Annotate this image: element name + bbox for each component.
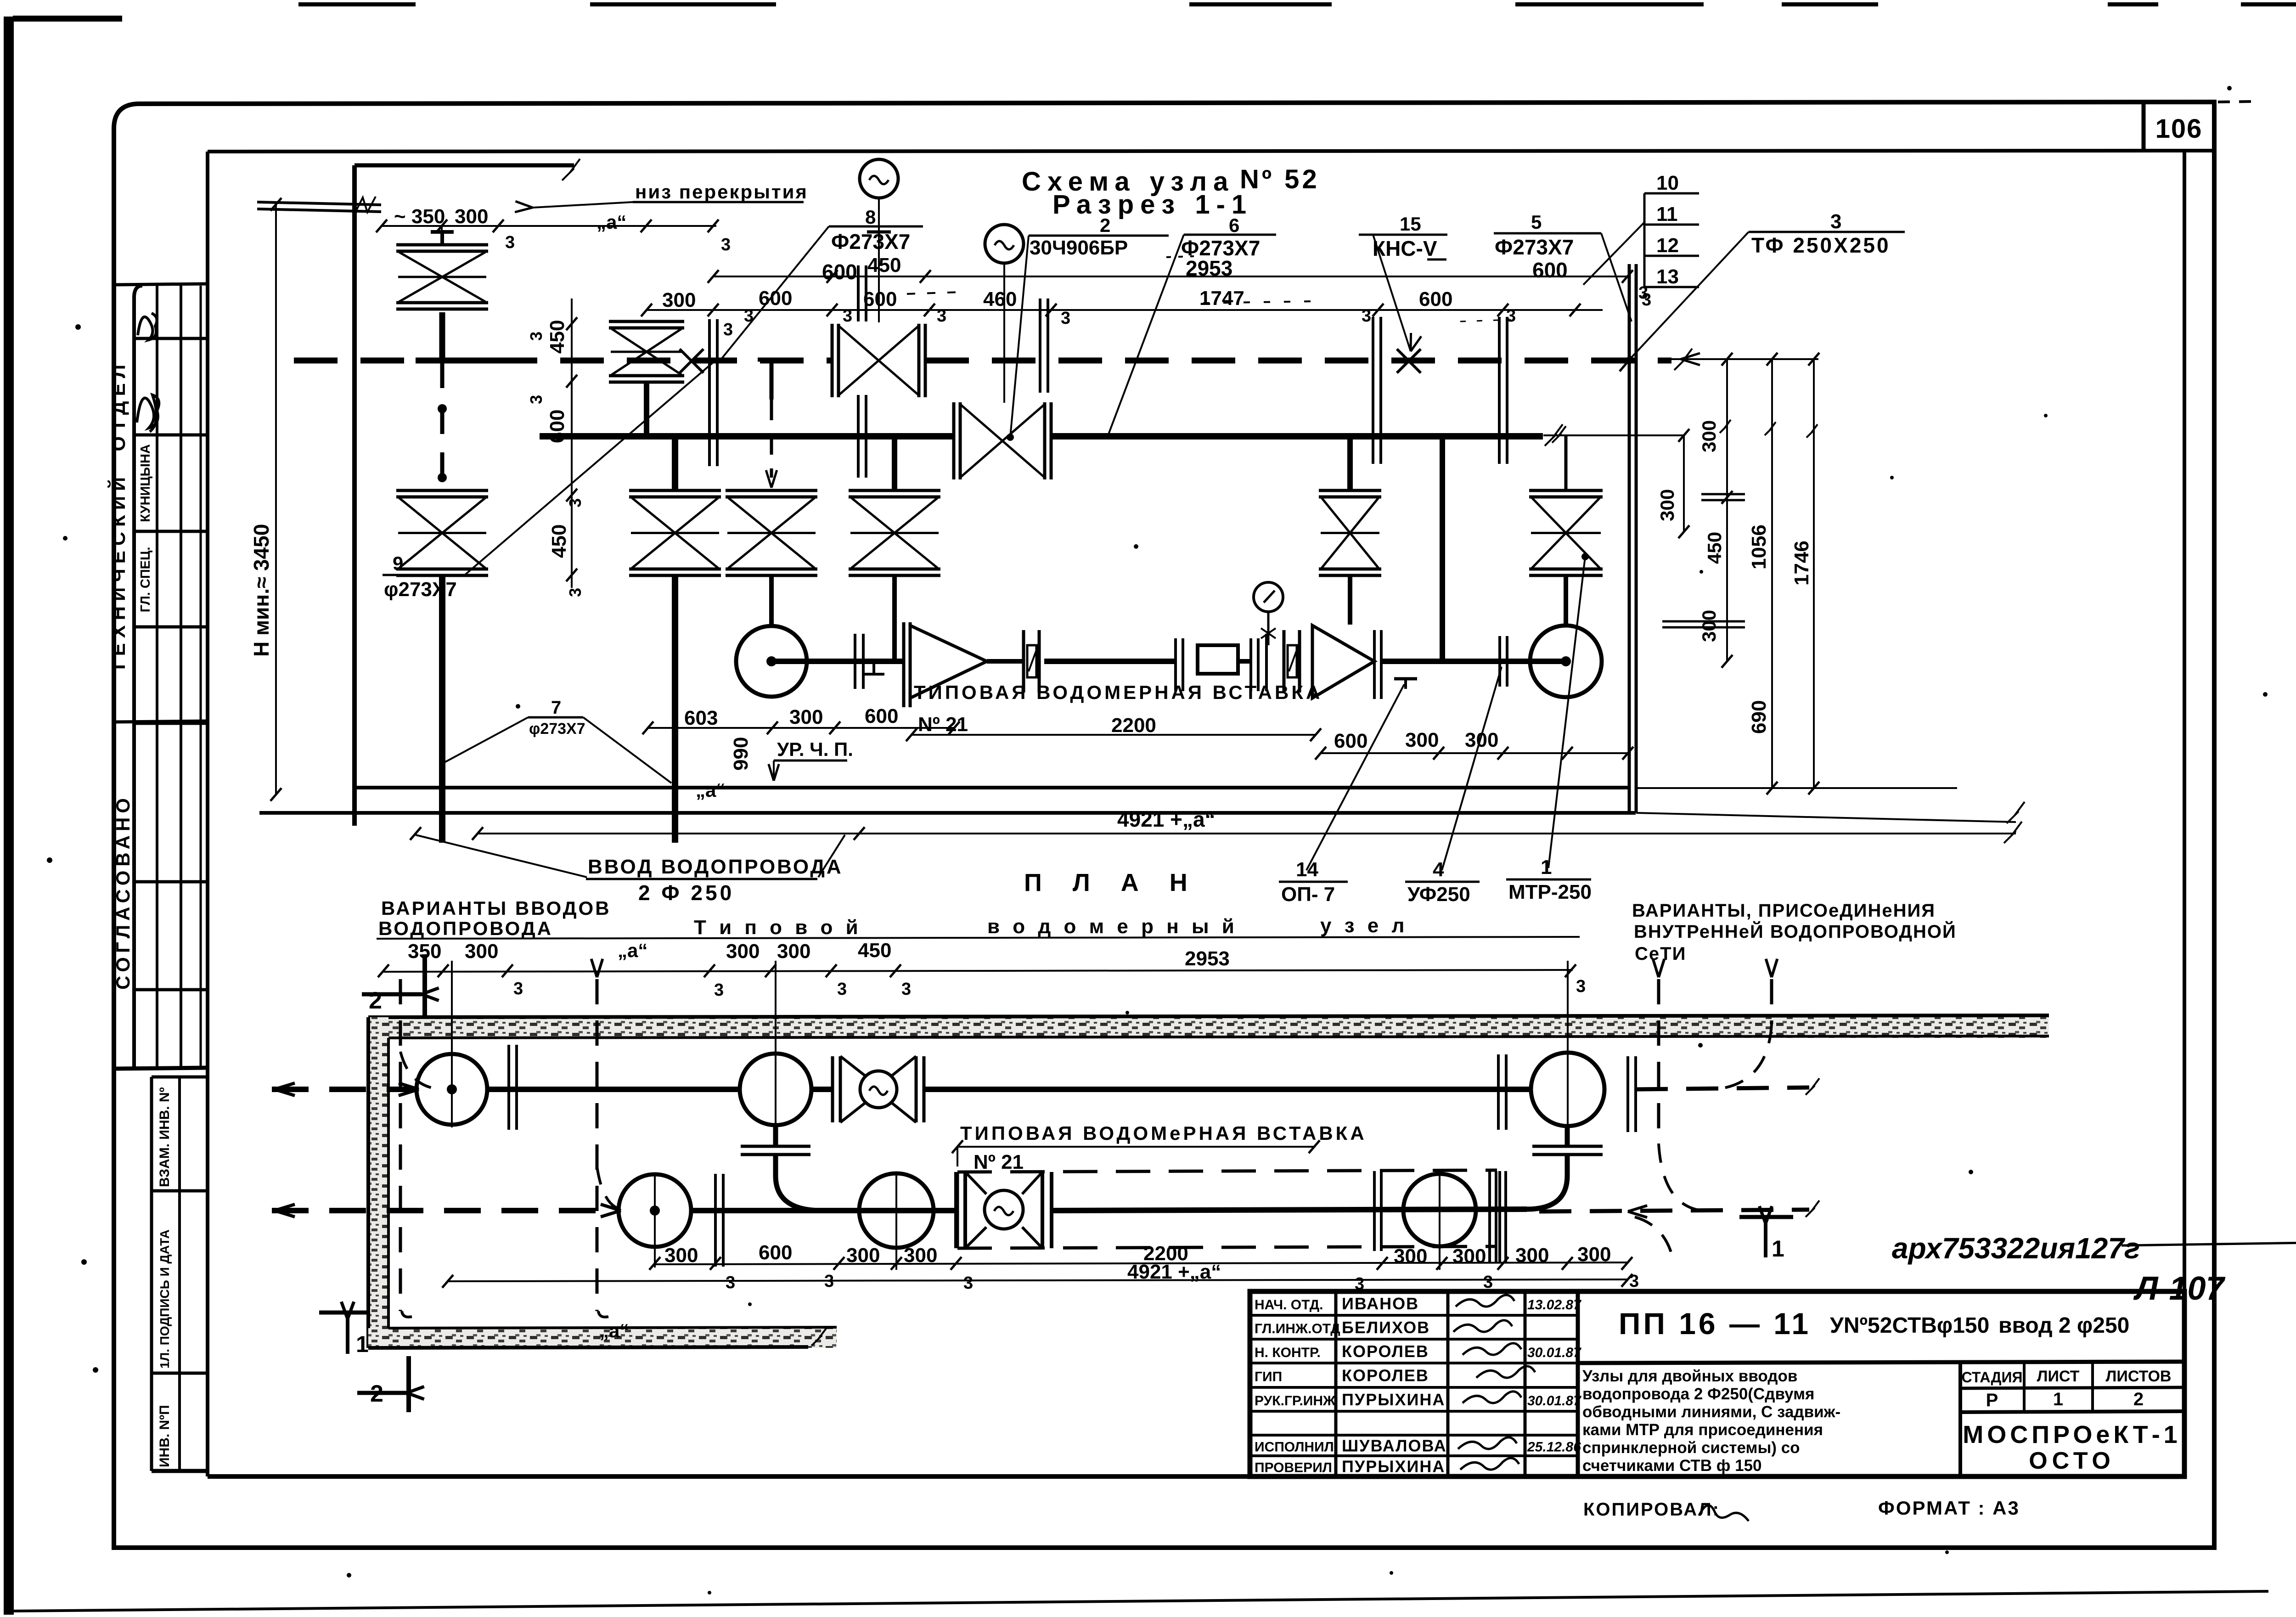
svg-text:ПРОВЕРИЛ: ПРОВЕРИЛ <box>1255 1460 1332 1476</box>
axis bypass valve x=1408 <box>609 320 684 323</box>
svg-text:3: 3 <box>566 498 585 507</box>
svg-text:КУНИЦЫНА: КУНИЦЫНА <box>138 444 153 522</box>
svg-text:3: 3 <box>1355 1274 1364 1294</box>
room left wall <box>352 165 357 826</box>
sleeve on meter line <box>854 634 856 689</box>
svg-text:УФ250: УФ250 <box>1407 883 1470 906</box>
names table grid <box>1250 1314 1578 1317</box>
column 3141 stem <box>1440 436 1445 661</box>
svg-text:КОРОЛЕВ: КОРОЛЕВ <box>1342 1366 1429 1385</box>
lower pipe dashed inlet <box>272 1208 618 1213</box>
scan smudges <box>907 292 960 294</box>
svg-text:ПП 16 — 11: ПП 16 — 11 <box>1619 1307 1811 1341</box>
svg-text:3: 3 <box>937 306 946 326</box>
upper pipe dashed inlet <box>272 1087 413 1092</box>
valve F x=3410 + stem <box>1564 436 1568 490</box>
V leader to risers <box>416 835 587 877</box>
room top line <box>355 163 574 168</box>
svg-text:КОПИРОВАЛ:: КОПИРОВАЛ: <box>1583 1499 1720 1520</box>
valve D x=1948 + stem <box>892 436 897 490</box>
svg-text:300: 300 <box>1405 729 1439 751</box>
svg-text:счетчиками СТВ ф 150: счетчиками СТВ ф 150 <box>1582 1457 1762 1475</box>
upper pipe <box>487 1087 739 1092</box>
svg-text:П Л А Н: П Л А Н <box>1024 869 1199 896</box>
svg-text:ОП- 7: ОП- 7 <box>1281 883 1335 906</box>
svg-text:106: 106 <box>2155 114 2203 144</box>
svg-text:8: 8 <box>865 206 876 228</box>
svg-text:450: 450 <box>546 320 568 354</box>
No21 bracket <box>912 734 1316 736</box>
margin divider lines <box>114 284 208 285</box>
svg-text:4921 +„а“: 4921 +„а“ <box>1127 1261 1221 1283</box>
svg-text:3: 3 <box>721 235 731 254</box>
valve C x=1680 <box>726 489 817 492</box>
upper ~valve <box>831 1056 834 1122</box>
dashed risers right (variants) <box>1657 979 1660 1144</box>
plan left wall <box>368 1017 388 1348</box>
meter circle 3 <box>619 1174 691 1247</box>
support mark <box>1394 677 1417 681</box>
svg-text:300: 300 <box>1698 420 1720 452</box>
svg-text:450: 450 <box>858 939 891 962</box>
svg-text:600: 600 <box>863 288 897 310</box>
column B riser (ввод 2) x=1470 <box>672 436 678 490</box>
svg-text:300: 300 <box>1656 489 1678 521</box>
svg-text:ТФ 250X250: ТФ 250X250 <box>1751 233 1891 257</box>
svg-text:3: 3 <box>1576 977 1586 996</box>
svg-text:МТР-250: МТР-250 <box>1508 881 1592 903</box>
svg-text:Н мин.≈ 3450: Н мин.≈ 3450 <box>249 524 273 657</box>
top ref double line <box>257 202 381 205</box>
svg-text:4921 +„a“: 4921 +„a“ <box>1117 807 1216 831</box>
svg-text:Л-107: Л-107 <box>2133 1270 2226 1307</box>
svg-text:3: 3 <box>726 1273 735 1292</box>
svg-text:450: 450 <box>1704 532 1725 564</box>
svg-text:3: 3 <box>1506 306 1516 326</box>
svg-text:600: 600 <box>1532 258 1568 282</box>
manometer <box>1254 582 1283 612</box>
dim row3 <box>647 309 1603 311</box>
svg-text:450: 450 <box>867 254 901 276</box>
svg-text:2953: 2953 <box>1186 256 1232 280</box>
svg-text:Разрез 1-1: Разрез 1-1 <box>1052 190 1253 220</box>
svg-text:„а“: „а“ <box>599 1320 629 1341</box>
svg-text:ВАРИАНТЫ, ПРИСОеДИНеНИЯ: ВАРИАНТЫ, ПРИСОеДИНеНИЯ <box>1632 901 1936 921</box>
svg-text:ВАРИАНТЫ ВВОДОВ: ВАРИАНТЫ ВВОДОВ <box>381 897 611 919</box>
svg-text:Ф273X7: Ф273X7 <box>831 230 910 254</box>
svg-text:11: 11 <box>1656 203 1678 225</box>
svg-text:3: 3 <box>513 979 523 998</box>
svg-text:3: 3 <box>843 306 852 326</box>
flange marks on right risers <box>1701 493 1745 496</box>
flange trio w manometer <box>1249 638 1252 691</box>
svg-text:БЕЛИХОВ: БЕЛИХОВ <box>1342 1318 1430 1337</box>
svg-text:3: 3 <box>1362 306 1371 326</box>
svg-text:1747: 1747 <box>1199 287 1244 310</box>
svg-text:3: 3 <box>744 306 754 326</box>
svg-text:ками МТР для присоединения: ками МТР для присоединения <box>1582 1421 1823 1439</box>
svg-text:6: 6 <box>1229 214 1239 236</box>
svg-text:2: 2 <box>1100 214 1110 236</box>
svg-text:3: 3 <box>901 980 911 999</box>
svg-text:300: 300 <box>904 1244 937 1267</box>
svg-text:300: 300 <box>455 205 488 228</box>
svg-text:ввод 2 φ250: ввод 2 φ250 <box>1998 1313 2129 1338</box>
svg-text:3: 3 <box>527 395 546 404</box>
vibration insert right <box>1283 630 1286 693</box>
right dim stub line <box>1671 358 1818 360</box>
lower ~valve (in dashed box) <box>954 1172 958 1248</box>
svg-text:ВОДОПРОВОДА: ВОДОПРОВОДА <box>378 918 553 939</box>
overall 4921 line <box>478 833 2016 834</box>
svg-text:15: 15 <box>1400 213 1421 235</box>
svg-text:300: 300 <box>846 1244 880 1267</box>
svg-text:9: 9 <box>393 552 403 574</box>
svg-text:3: 3 <box>527 332 546 341</box>
svg-text:2953: 2953 <box>1185 947 1230 970</box>
svg-text:ВНУТРеННеЙ ВОДОПРОВОДНОЙ: ВНУТРеННеЙ ВОДОПРОВОДНОЙ <box>1634 921 1957 942</box>
svg-text:спринклерной системы) со: спринклерной системы) со <box>1582 1439 1800 1457</box>
svg-text:~ 350: ~ 350 <box>394 205 445 228</box>
upper pipe right part <box>924 1087 1531 1092</box>
pipe sleeves crossing axis and pipe <box>708 319 711 466</box>
motor circle 2 <box>985 225 1024 263</box>
svg-text:25.12.86: 25.12.86 <box>1527 1440 1581 1455</box>
valve E x=2940 + stem <box>1347 436 1353 490</box>
вставка dashed box <box>957 1170 1497 1172</box>
svg-text:300: 300 <box>1698 610 1720 642</box>
meter circle 1 <box>416 1054 487 1125</box>
meter circle 4 <box>859 1173 934 1248</box>
reducer triangle left <box>910 625 987 698</box>
inner frame <box>206 152 209 1476</box>
svg-text:300: 300 <box>662 289 696 311</box>
flange <box>1174 638 1177 691</box>
plan bottom wall <box>368 1328 837 1348</box>
section marker 1 right <box>1739 1215 1793 1219</box>
svg-text:ГИП: ГИП <box>1255 1369 1282 1385</box>
svg-text:300: 300 <box>1577 1243 1611 1266</box>
svg-text:ФОРМАТ : А3: ФОРМАТ : А3 <box>1878 1497 2020 1519</box>
meter circle 2 <box>740 1054 811 1125</box>
svg-text:ИСПОЛНИЛ: ИСПОЛНИЛ <box>1255 1440 1334 1455</box>
svg-text:990: 990 <box>730 737 752 771</box>
svg-text:300: 300 <box>664 1244 698 1267</box>
lower pipe <box>691 1208 956 1213</box>
svg-text:ЛИСТОВ: ЛИСТОВ <box>2106 1368 2172 1385</box>
left lower table <box>150 1077 153 1471</box>
svg-text:водопровода 2 Ф250(Сдвумя: водопровода 2 Ф250(Сдвумя <box>1582 1385 1814 1403</box>
svg-text:30.01.87: 30.01.87 <box>1527 1345 1581 1360</box>
svg-text:300: 300 <box>726 940 760 963</box>
Hmin3450 dim <box>275 204 277 794</box>
svg-text:3: 3 <box>714 980 724 1000</box>
left upper table <box>134 286 142 1068</box>
meter circle 5 <box>1531 1053 1604 1126</box>
svg-text:5: 5 <box>1531 211 1542 233</box>
svg-text:СТАДИЯ: СТАДИЯ <box>1962 1369 2023 1386</box>
svg-text:обводными линиями, С задвиж-: обводными линиями, С задвиж- <box>1582 1403 1840 1421</box>
meter line segments <box>807 659 904 664</box>
svg-text:НАЧ. ОТД.: НАЧ. ОТД. <box>1255 1297 1323 1313</box>
svg-text:„a“: „a“ <box>618 940 647 961</box>
svg-text:ПУРЫХИНА: ПУРЫХИНА <box>1342 1457 1445 1476</box>
svg-text:300: 300 <box>1394 1245 1427 1268</box>
room right wall double <box>1628 264 1631 813</box>
plan bottom dim chain <box>655 1262 1627 1264</box>
right chain 600/300/300 <box>1321 752 1628 754</box>
svg-text:φ273X7: φ273X7 <box>529 720 585 738</box>
section marker 1 left <box>319 1311 366 1315</box>
dim vertical x=3667 <box>1683 435 1685 533</box>
chain P 603/300/600 <box>648 727 954 729</box>
svg-text:ИНВ. NºП: ИНВ. NºП <box>157 1405 172 1467</box>
svg-text:у з е л: у з е л <box>1320 914 1408 937</box>
svg-text:ПУРЫХИНА: ПУРЫХИНА <box>1342 1390 1445 1409</box>
vibration insert left <box>1022 630 1025 693</box>
svg-text:460: 460 <box>983 288 1017 310</box>
svg-text:ГЛ.ИНЖ.ОТД: ГЛ.ИНЖ.ОТД <box>1255 1321 1340 1336</box>
top band inner line <box>208 151 2214 152</box>
svg-text:φ273X7: φ273X7 <box>384 578 457 601</box>
svg-text:2: 2 <box>369 987 382 1014</box>
svg-text:3: 3 <box>1061 309 1070 328</box>
circle5 branch down <box>1565 1126 1570 1147</box>
svg-text:1: 1 <box>1772 1236 1784 1262</box>
svg-text:600: 600 <box>546 410 568 443</box>
svg-text:7: 7 <box>551 698 561 718</box>
svg-text:3: 3 <box>1483 1273 1493 1292</box>
svg-text:600: 600 <box>1419 288 1452 310</box>
svg-text:СеТИ: СеТИ <box>1635 944 1686 964</box>
svg-text:300: 300 <box>1515 1244 1549 1267</box>
big code box ПП 16-11 <box>1578 1362 2184 1363</box>
svg-text:1: 1 <box>2053 1389 2063 1409</box>
svg-text:УР. Ч. П.: УР. Ч. П. <box>777 738 853 760</box>
dashed T drop x=1680 <box>758 358 786 362</box>
cursive marks col1 <box>138 313 157 340</box>
svg-text:Ф273X7: Ф273X7 <box>1495 235 1574 259</box>
plan top wall <box>368 1017 2049 1038</box>
svg-text:„a“: „a“ <box>597 211 626 233</box>
svg-text:МОСПРОеКТ-1: МОСПРОеКТ-1 <box>1963 1421 2181 1448</box>
svg-text:3: 3 <box>505 233 515 252</box>
floor ref lines extending right <box>1636 787 1957 789</box>
svg-text:3: 3 <box>963 1273 973 1293</box>
reducer triangle right <box>1311 625 1314 698</box>
svg-text:300: 300 <box>789 706 823 728</box>
big axis valve x=1913 <box>831 324 834 397</box>
signatures squiggles <box>1456 1295 1514 1307</box>
svg-text:300: 300 <box>465 940 498 963</box>
svg-text:КНС-V: КНС-V <box>1373 237 1437 260</box>
lower pipe right part <box>1052 1209 1527 1211</box>
title block outline <box>1250 1291 2184 1476</box>
svg-text:3: 3 <box>566 588 585 597</box>
svg-text:СОГЛАСОВАНО: СОГЛАСОВАНО <box>112 794 134 990</box>
dim row1 <box>382 225 716 227</box>
svg-text:ВЗАМ. ИНВ. Nº: ВЗАМ. ИНВ. Nº <box>157 1087 172 1187</box>
svg-text:300: 300 <box>777 940 810 963</box>
svg-text:ИВАНОВ: ИВАНОВ <box>1342 1294 1419 1313</box>
end flange pair <box>1488 1171 1491 1263</box>
lower dashed extension <box>1539 1210 1809 1211</box>
svg-text:„a“: „a“ <box>696 779 726 801</box>
svg-text:3: 3 <box>723 320 733 339</box>
svg-text:1056: 1056 <box>1748 524 1770 569</box>
svg-text:13: 13 <box>1656 265 1679 288</box>
svg-text:Р: Р <box>1986 1390 1998 1410</box>
svg-text:600: 600 <box>865 705 898 727</box>
svg-text:10: 10 <box>1656 172 1679 194</box>
dim vertical x=3859 (1056) <box>1771 359 1773 788</box>
dim row2 <box>713 276 1627 277</box>
bottom paper edge <box>14 1591 2268 1611</box>
upper dashed extension <box>1636 1087 1809 1089</box>
axis X mark 2 <box>1397 349 1421 373</box>
meter circle 4b <box>1403 1174 1476 1246</box>
svg-text:ТЕХНИЧЕСКИЙ ОТДЕЛ: ТЕХНИЧЕСКИЙ ОТДЕЛ <box>107 360 129 673</box>
svg-text:Узлы для двойных вводов: Узлы для двойных вводов <box>1582 1367 1797 1385</box>
dashed axis line <box>294 358 832 364</box>
axis X mark 1 <box>680 349 703 373</box>
flange after reducer <box>1373 630 1376 699</box>
svg-text:Nº 21: Nº 21 <box>974 1151 1024 1173</box>
svg-text:2 Ф 250: 2 Ф 250 <box>638 881 734 905</box>
svg-text:2200: 2200 <box>1111 714 1156 737</box>
svg-text:600: 600 <box>1334 730 1367 752</box>
svg-text:ГЛ. СПЕЦ.: ГЛ. СПЕЦ. <box>138 547 153 613</box>
svg-text:Nº 21: Nº 21 <box>918 713 968 736</box>
svg-text:3: 3 <box>1830 210 1841 233</box>
reducer base flange left <box>902 622 906 707</box>
svg-text:1746: 1746 <box>1790 541 1813 586</box>
big pipe valve x=2183 <box>952 402 956 479</box>
svg-text:30.01.87: 30.01.87 <box>1527 1393 1581 1409</box>
water meter circle right <box>1530 625 1602 697</box>
paper edge top-left bar <box>13 16 122 22</box>
water meter circle left <box>736 626 807 697</box>
column A riser (ввод 1) x=963 <box>440 234 444 245</box>
svg-text:603: 603 <box>684 707 718 729</box>
svg-text:низ перекрытия: низ перекрытия <box>635 181 808 203</box>
svg-text:13.02.87: 13.02.87 <box>1527 1297 1581 1313</box>
svg-text:УNº52СТВφ150: УNº52СТВφ150 <box>1830 1313 1989 1338</box>
svg-text:ЛИСТ: ЛИСТ <box>2037 1368 2080 1385</box>
svg-text:ОСТО: ОСТО <box>2029 1448 2115 1474</box>
106 box divider <box>2142 103 2146 152</box>
meter body rect <box>1198 645 1238 674</box>
circle2 branch down <box>773 1125 778 1147</box>
svg-text:арх753322ия127г: арх753322ия127г <box>1892 1232 2140 1265</box>
dim vertical x=3761 <box>1726 359 1728 661</box>
svg-text:Т и п о в о й: Т и п о в о й <box>694 916 862 939</box>
svg-text:ШУВАЛОВА: ШУВАЛОВА <box>1342 1437 1447 1455</box>
svg-text:690: 690 <box>1748 700 1770 734</box>
svg-text:ТИПОВАЯ ВОДОМеРНАЯ ВСТАВКА: ТИПОВАЯ ВОДОМеРНАЯ ВСТАВКА <box>960 1122 1367 1144</box>
svg-text:600: 600 <box>759 1241 792 1264</box>
svg-text:1Л. ПОДПИСЬ И ДАТА: 1Л. ПОДПИСЬ И ДАТА <box>158 1229 172 1369</box>
svg-text:ВВОД ВОДОПРОВОДА: ВВОД ВОДОПРОВОДА <box>588 856 843 878</box>
dashed riser variant left <box>399 979 402 1311</box>
svg-text:30Ч906БР: 30Ч906БР <box>1030 237 1128 259</box>
main pipe <box>540 433 954 439</box>
svg-text:450: 450 <box>548 524 570 558</box>
sleeve on meter line right <box>1498 636 1501 687</box>
svg-text:КОРОЛЕВ: КОРОЛЕВ <box>1342 1342 1429 1361</box>
svg-text:в о д о м е р н ы й: в о д о м е р н ы й <box>987 915 1238 938</box>
top scan dashes <box>298 2 416 6</box>
T support mark <box>863 673 884 676</box>
plan overall dim <box>448 1279 1627 1281</box>
room floor lines <box>355 786 1629 789</box>
svg-text:ТИПОВАЯ ВОДОМЕРНАЯ ВСТАВКА: ТИПОВАЯ ВОДОМЕРНАЯ ВСТАВКА <box>914 682 1322 703</box>
svg-text:1: 1 <box>356 1331 369 1357</box>
plan top dim row <box>383 970 1573 972</box>
svg-text:300: 300 <box>1452 1245 1486 1268</box>
svg-text:600: 600 <box>822 260 857 284</box>
dim vertical x=3950 (1746) <box>1813 359 1815 788</box>
dashed riser variant 2 <box>596 979 599 1311</box>
svg-text:12: 12 <box>1656 234 1679 257</box>
motor circle 1 <box>860 159 898 198</box>
svg-text:Н. КОНТР.: Н. КОНТР. <box>1255 1345 1321 1360</box>
svg-text:2: 2 <box>2133 1389 2144 1409</box>
paper edge left bar <box>4 17 14 1615</box>
stages table <box>1958 1363 1962 1476</box>
vertical dim chain x=1245 <box>571 299 573 588</box>
scan specks <box>75 324 81 330</box>
svg-text:РУК.ГР.ИНЖ: РУК.ГР.ИНЖ <box>1255 1393 1336 1409</box>
svg-text:3: 3 <box>837 980 847 999</box>
